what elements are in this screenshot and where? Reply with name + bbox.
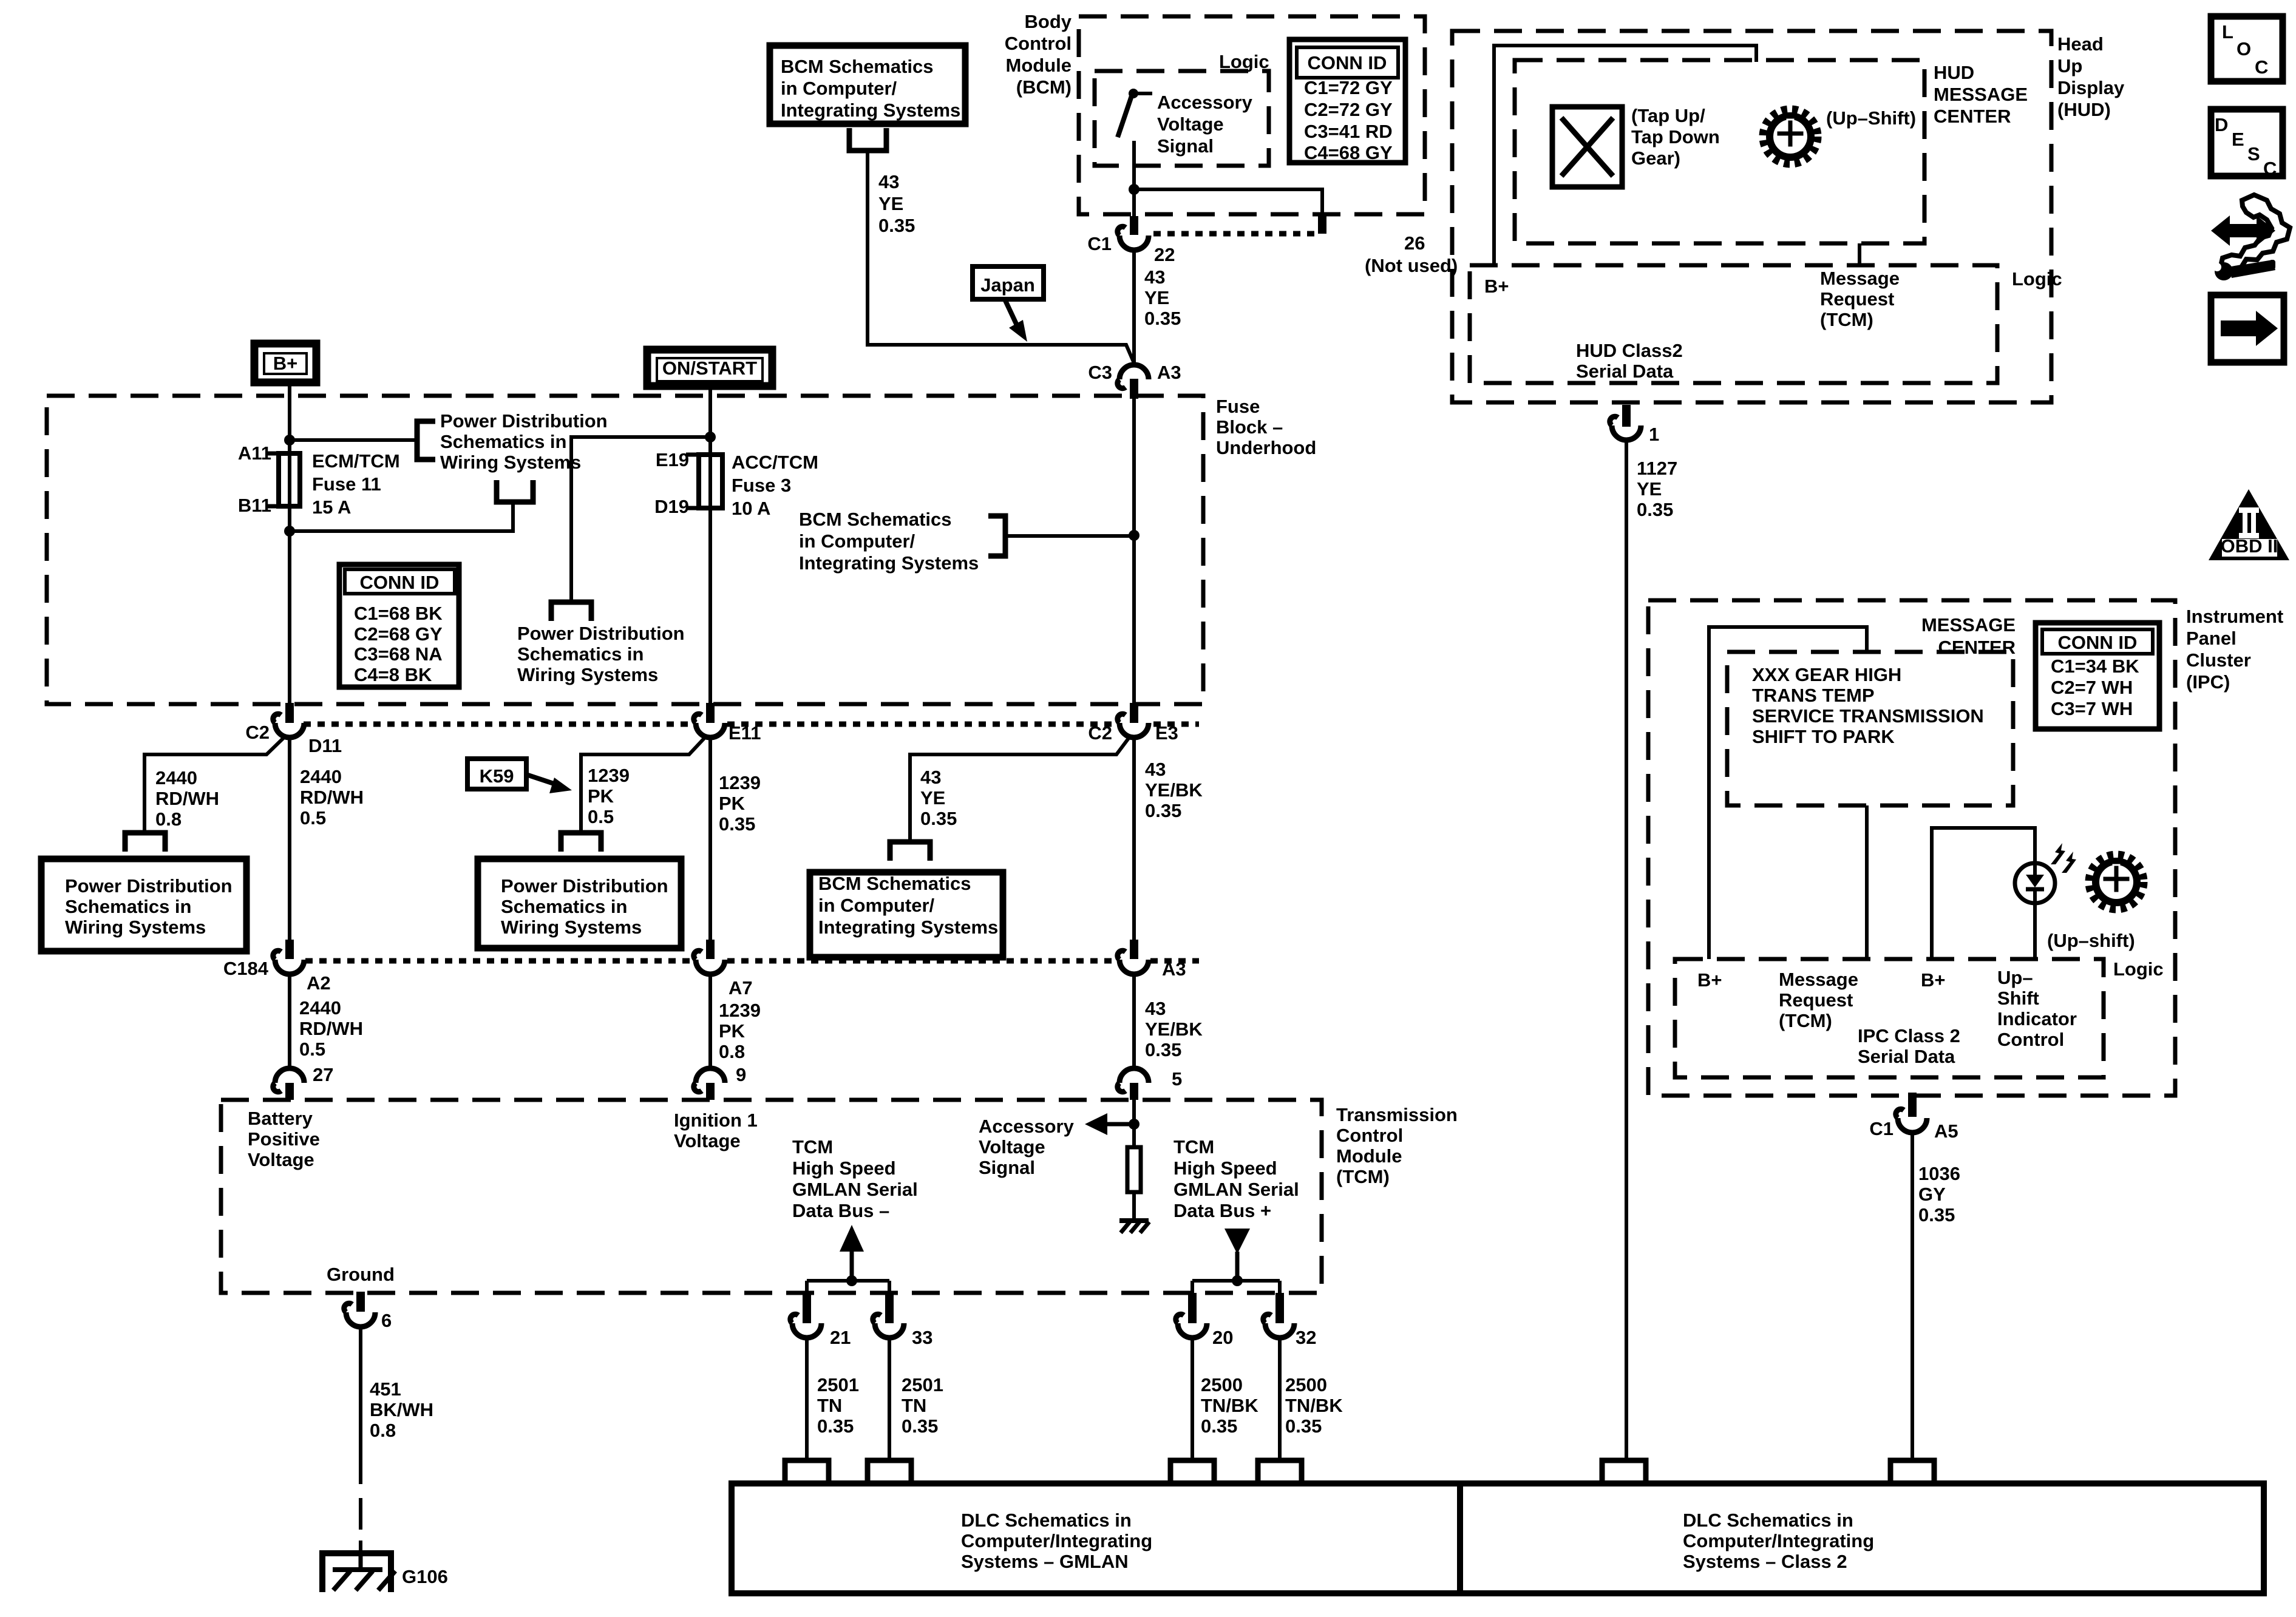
svg-text:E3: E3 (1155, 722, 1178, 744)
pin bar (356, 1292, 365, 1312)
connector HUD connector pin 1 (1610, 416, 1641, 440)
svg-text:OBD II: OBD II (2221, 535, 2278, 557)
svg-text:1239: 1239 (719, 772, 761, 793)
wire branch to BCM Schematics middle box (910, 735, 1131, 842)
svg-text:SHIFT TO PARK: SHIFT TO PARK (1752, 726, 1895, 747)
svg-text:SERVICE TRANSMISSION: SERVICE TRANSMISSION (1752, 705, 1984, 727)
wire up-shift indicator feed (1932, 828, 2035, 959)
wire resistor to ground (1132, 1192, 1136, 1219)
bracket to BCM Schematics ref (988, 516, 1005, 556)
svg-text:20: 20 (1212, 1327, 1233, 1348)
svg-text:ACC/TCM: ACC/TCM (732, 452, 818, 473)
svg-text:1036: 1036 (1918, 1163, 1960, 1184)
svg-text:C: C (2263, 158, 2277, 179)
svg-text:Head: Head (2057, 33, 2104, 55)
connector TCM pin 20 (1176, 1314, 1207, 1338)
svg-text:C3: C3 (1088, 362, 1112, 383)
wire message request HUD (1858, 243, 1861, 265)
svg-text:Wiring Systems: Wiring Systems (440, 452, 581, 473)
svg-text:Schematics in: Schematics in (501, 896, 627, 917)
svg-text:(HUD): (HUD) (2057, 99, 2111, 120)
svg-text:CONN ID: CONN ID (360, 572, 440, 593)
IPC logic box (1675, 959, 2104, 1077)
svg-text:Battery: Battery (248, 1108, 313, 1129)
wire GMLAN bus minus (807, 1279, 889, 1283)
svg-text:Systems – GMLAN: Systems – GMLAN (961, 1551, 1129, 1572)
svg-text:2500: 2500 (1201, 1374, 1243, 1395)
svg-text:Instrument: Instrument (2186, 606, 2283, 627)
connector A3 connector row2 (1118, 951, 1149, 974)
svg-text:Systems – Class 2: Systems – Class 2 (1683, 1551, 1847, 1572)
svg-text:High Speed: High Speed (1173, 1158, 1277, 1179)
CONN ID table (BCM) (1289, 39, 1405, 163)
svg-text:C2=72 GY: C2=72 GY (1304, 99, 1393, 120)
wire bus to pin 20 (1190, 1281, 1194, 1294)
box: BCM Schematics top (770, 46, 965, 124)
svg-text:0.35: 0.35 (1285, 1415, 1322, 1437)
junction bus minus (846, 1275, 857, 1286)
wire pin 5 into TCM (1132, 1100, 1136, 1147)
svg-text:Message: Message (1820, 268, 1900, 289)
svg-text:PK: PK (719, 1020, 746, 1042)
svg-text:2440: 2440 (300, 766, 342, 787)
fuse ACC/TCM Fuse 3 (699, 455, 722, 508)
svg-text:(IPC): (IPC) (2186, 671, 2230, 693)
svg-text:43: 43 (1145, 998, 1166, 1019)
wire to C1 (1132, 189, 1136, 216)
bracket DLC pin 20 (1170, 1460, 1214, 1483)
connector fuse block connector C3 pin A3 (1118, 365, 1149, 388)
svg-text:CENTER: CENTER (1938, 637, 2016, 658)
wire branch to BCM Schematics ref (1005, 534, 1134, 538)
junction E19 branch (705, 432, 716, 442)
svg-text:Panel: Panel (2186, 628, 2237, 649)
svg-text:Integrating Systems: Integrating Systems (818, 917, 998, 938)
svg-text:GMLAN Serial: GMLAN Serial (792, 1179, 918, 1200)
wire IPC Class 2 serial data to DLC (1911, 1134, 1914, 1458)
junction bus plus (1232, 1275, 1243, 1286)
pin bar (803, 1293, 811, 1323)
connector row C2/E11/C2-E3 dotted line (304, 722, 692, 727)
fuse ECM/TCM Fuse 11 (279, 453, 300, 506)
svg-text:0.35: 0.35 (902, 1415, 938, 1437)
bracket DLC pin 32 (1258, 1460, 1302, 1483)
wire A3 to E3 (1132, 399, 1136, 703)
CONN ID table (IPC) (2036, 623, 2159, 729)
connector A7 connector (694, 951, 725, 974)
svg-text:MESSAGE: MESSAGE (1921, 614, 2016, 636)
icon LOC (2211, 16, 2283, 81)
wire B+ feed to C2 (288, 386, 291, 703)
svg-text:E11: E11 (729, 722, 761, 744)
wire E11 to A7 (708, 737, 712, 940)
wire C1 to C3 (1132, 251, 1136, 364)
svg-text:26: 26 (1404, 232, 1425, 254)
svg-text:Underhood: Underhood (1216, 437, 1316, 458)
svg-text:BCM Schematics: BCM Schematics (799, 509, 952, 530)
connector TCM pin 9 (694, 1068, 725, 1092)
svg-text:in Computer/: in Computer/ (781, 78, 897, 99)
svg-text:Request: Request (1820, 288, 1894, 310)
svg-text:Japan: Japan (980, 274, 1035, 296)
svg-text:XXX GEAR HIGH: XXX GEAR HIGH (1752, 664, 1901, 685)
svg-text:K59: K59 (480, 765, 514, 787)
bracket to BCM Schematics middle box (890, 842, 930, 861)
svg-text:Integrating Systems: Integrating Systems (799, 552, 979, 574)
svg-text:(TCM): (TCM) (1820, 309, 1873, 330)
pin bar (1275, 1293, 1284, 1323)
svg-text:0.35: 0.35 (920, 808, 957, 829)
wire A7 to TCM pin 9 (708, 974, 712, 1068)
CONN ID table (fuse block) (339, 564, 459, 687)
pin bar (706, 1083, 715, 1100)
module box: Fuse Block Underhood (47, 396, 1203, 704)
icon forward arrow (2211, 295, 2284, 362)
wire ON/START feed to E11 (708, 390, 712, 703)
svg-text:RD/WH: RD/WH (299, 1018, 363, 1039)
svg-text:TCM: TCM (1173, 1136, 1214, 1158)
chassis ground (TCM internal) (1119, 1221, 1149, 1233)
connector C2 pin D11 (273, 714, 304, 737)
svg-text:YE/BK: YE/BK (1145, 779, 1203, 801)
svg-text:MESSAGE: MESSAGE (1934, 84, 2028, 105)
svg-text:HUD: HUD (1934, 62, 1974, 83)
svg-text:G106: G106 (402, 1566, 448, 1587)
power symbol ON/START (647, 350, 772, 386)
svg-text:Voltage: Voltage (248, 1149, 314, 1170)
callout K59 (467, 759, 572, 793)
svg-text:Positive: Positive (248, 1128, 320, 1150)
svg-text:Wiring Systems: Wiring Systems (65, 917, 206, 938)
svg-text:PK: PK (719, 793, 746, 814)
svg-text:Up–: Up– (1997, 967, 2033, 988)
svg-text:Transmission: Transmission (1336, 1104, 1458, 1125)
svg-text:A3: A3 (1162, 958, 1186, 980)
svg-text:43: 43 (1144, 266, 1165, 288)
svg-text:Tap Down: Tap Down (1631, 126, 1720, 147)
svg-text:Power Distribution: Power Distribution (501, 875, 668, 897)
svg-text:0.35: 0.35 (1144, 308, 1181, 329)
svg-text:CONN ID: CONN ID (1308, 52, 1387, 73)
svg-text:PK: PK (588, 785, 614, 807)
pin bar 26 (not used) (1318, 214, 1326, 234)
icon shift/wrench (2211, 195, 2290, 280)
svg-text:Request: Request (1779, 989, 1853, 1011)
wire message request IPC (1865, 805, 1869, 959)
svg-text:A11: A11 (238, 442, 271, 464)
svg-text:Logic: Logic (2012, 268, 2062, 290)
pin bar (285, 703, 294, 723)
svg-text:Power Distribution: Power Distribution (517, 623, 685, 644)
wire LED to logic (2033, 903, 2037, 959)
svg-text:ECM/TCM: ECM/TCM (312, 450, 400, 472)
svg-text:C1=68 BK: C1=68 BK (354, 603, 443, 624)
svg-text:Voltage: Voltage (979, 1136, 1045, 1158)
svg-text:D19: D19 (654, 496, 689, 517)
box: DLC Schematics GMLAN (732, 1483, 1460, 1593)
svg-text:0.8: 0.8 (719, 1041, 745, 1062)
svg-text:(TCM): (TCM) (1779, 1010, 1832, 1031)
svg-text:0.5: 0.5 (299, 1039, 325, 1060)
connector BCM connector C1 pin 22 (1118, 226, 1149, 250)
svg-text:32: 32 (1296, 1327, 1316, 1348)
svg-text:Computer/Integrating: Computer/Integrating (1683, 1530, 1874, 1551)
wire pin 20 to DLC (1190, 1339, 1194, 1458)
svg-text:Control: Control (1005, 33, 1072, 54)
svg-text:0.35: 0.35 (1918, 1204, 1955, 1225)
svg-text:GY: GY (1918, 1184, 1946, 1205)
svg-text:B+: B+ (273, 353, 298, 374)
svg-text:C1: C1 (1087, 233, 1112, 254)
svg-text:TN: TN (902, 1395, 926, 1416)
svg-text:O: O (2237, 38, 2251, 59)
svg-text:Fuse 3: Fuse 3 (732, 475, 791, 496)
svg-text:(TCM): (TCM) (1336, 1166, 1390, 1187)
svg-text:D11: D11 (308, 735, 342, 756)
arrow GMLAN Data Bus plus (1224, 1229, 1250, 1281)
wire branch to pin 26 (1134, 189, 1322, 215)
svg-text:ON/START: ON/START (662, 358, 757, 379)
svg-text:C3=41 RD: C3=41 RD (1304, 121, 1393, 142)
svg-text:D: D (2215, 114, 2228, 135)
indicator gear (IPC up-shift) (2090, 855, 2143, 909)
svg-text:YE: YE (1144, 287, 1169, 308)
svg-text:0.35: 0.35 (1201, 1415, 1237, 1437)
connector TCM pin 21 (790, 1314, 821, 1338)
pin bar (1130, 379, 1138, 399)
wire pin 32 to DLC (1278, 1339, 1282, 1458)
svg-text:Accessory: Accessory (1157, 92, 1253, 113)
svg-text:0.35: 0.35 (719, 813, 755, 835)
connector IPC connector C1 pin A5 (1896, 1109, 1927, 1133)
svg-text:HUD Class2: HUD Class2 (1576, 340, 1683, 361)
connector TCM pin 32 (1263, 1314, 1294, 1338)
svg-text:C4=68 GY: C4=68 GY (1304, 142, 1393, 163)
svg-text:0.35: 0.35 (1145, 800, 1181, 821)
svg-text:1239: 1239 (719, 1000, 761, 1021)
svg-text:33: 33 (912, 1327, 932, 1348)
wire bus to pin 32 (1278, 1281, 1282, 1294)
callout Japan (973, 266, 1044, 342)
svg-text:in Computer/: in Computer/ (818, 895, 935, 916)
connector TCM pin 27 (273, 1068, 304, 1092)
module box: Body Control Module (BCM) (1079, 16, 1425, 214)
svg-text:43: 43 (1145, 759, 1166, 780)
svg-text:C3=7 WH: C3=7 WH (2051, 698, 2133, 719)
svg-text:TCM: TCM (792, 1136, 833, 1158)
pin bar (1188, 1293, 1197, 1323)
svg-text:2440: 2440 (299, 997, 341, 1019)
svg-text:0.35: 0.35 (1637, 499, 1673, 520)
svg-text:A3: A3 (1157, 362, 1181, 383)
svg-text:Computer/Integrating: Computer/Integrating (961, 1530, 1152, 1551)
wire HUD Class2 serial data to DLC (1625, 441, 1628, 1458)
IPC message center display box (1727, 652, 2013, 805)
svg-text:(Not used): (Not used) (1365, 255, 1458, 276)
pin bar (1130, 940, 1138, 959)
svg-text:Shift: Shift (1997, 988, 2039, 1009)
resistor (TCM internal) (1127, 1147, 1141, 1192)
svg-text:Gear): Gear) (1631, 147, 1680, 169)
svg-text:TN/BK: TN/BK (1201, 1395, 1258, 1416)
svg-text:Data Bus +: Data Bus + (1173, 1200, 1271, 1221)
svg-text:2440: 2440 (155, 767, 197, 788)
svg-text:BK/WH: BK/WH (370, 1399, 433, 1420)
box: BCM Schematics middle (810, 872, 1003, 957)
svg-text:L: L (2222, 21, 2233, 42)
junction A11 branch (284, 435, 295, 446)
wire branch B11 to ref bracket (290, 502, 513, 531)
svg-text:GMLAN Serial: GMLAN Serial (1173, 1179, 1299, 1200)
wire HUD B+ feed (1494, 46, 1756, 265)
connector TCM pin 5 (1118, 1068, 1149, 1092)
svg-text:Schematics in: Schematics in (440, 431, 566, 452)
svg-text:B+: B+ (1697, 969, 1722, 991)
bracket to Wiring Systems text (497, 480, 533, 502)
svg-text:E19: E19 (656, 449, 689, 470)
svg-text:1127: 1127 (1637, 458, 1677, 479)
connector TCM pin 6 (344, 1303, 375, 1327)
svg-text:Wiring Systems: Wiring Systems (501, 917, 642, 938)
svg-text:CONN ID: CONN ID (2058, 632, 2138, 653)
svg-text:Display: Display (2057, 77, 2125, 98)
wire IPC B+ feed (1709, 627, 1867, 959)
svg-text:21: 21 (830, 1327, 851, 1348)
svg-text:Logic: Logic (1219, 51, 1269, 72)
svg-text:0.8: 0.8 (155, 808, 182, 830)
svg-text:(Up–Shift): (Up–Shift) (1826, 107, 1916, 129)
BCM C1 connector dotted line to pin 26 (1153, 231, 1314, 237)
svg-text:BCM Schematics: BCM Schematics (781, 56, 934, 77)
svg-text:Ignition 1: Ignition 1 (674, 1110, 758, 1131)
bracket DLC HUD serial (1602, 1460, 1646, 1483)
bracket DLC pin 21 (785, 1460, 829, 1483)
wire ground lower (359, 1541, 362, 1552)
svg-text:B+: B+ (1921, 969, 1946, 991)
svg-text:Control: Control (1336, 1125, 1403, 1146)
pin bar (1622, 405, 1631, 427)
svg-text:C1=34 BK: C1=34 BK (2051, 656, 2139, 677)
wire 43 YE from BCM Schematics to fuse block (868, 151, 1134, 363)
wire branch to Power Distribution ref 2 (571, 437, 710, 602)
svg-text:0.35: 0.35 (878, 215, 915, 236)
svg-text:A2: A2 (307, 972, 331, 994)
wire ground upper (359, 1328, 362, 1484)
svg-text:YE: YE (1637, 478, 1662, 500)
svg-text:43: 43 (878, 171, 899, 192)
svg-text:Module: Module (1336, 1145, 1402, 1167)
svg-text:Cluster: Cluster (2186, 649, 2251, 671)
svg-text:Schematics in: Schematics in (65, 896, 191, 917)
svg-text:High Speed: High Speed (792, 1158, 896, 1179)
svg-text:C4=8 BK: C4=8 BK (354, 664, 432, 685)
svg-text:S: S (2247, 143, 2260, 164)
HUD logic box (1470, 265, 1997, 383)
svg-text:1: 1 (1649, 424, 1659, 445)
svg-text:Serial Data: Serial Data (1576, 361, 1674, 382)
BCM inner logic box (1095, 71, 1269, 166)
junction BCM schematics branch (1129, 530, 1140, 541)
svg-text:Block –: Block – (1216, 416, 1283, 438)
svg-text:Wiring Systems: Wiring Systems (517, 664, 658, 685)
svg-text:2500: 2500 (1285, 1374, 1327, 1395)
pin bar (1130, 703, 1138, 723)
svg-text:Voltage: Voltage (674, 1130, 741, 1151)
svg-text:Control: Control (1997, 1029, 2064, 1050)
svg-text:(Up–shift): (Up–shift) (2047, 930, 2135, 951)
svg-text:C2: C2 (245, 722, 270, 743)
wire A2 to TCM pin 27 (288, 974, 291, 1068)
box: Power Distribution left (41, 859, 246, 951)
svg-text:Data Bus –: Data Bus – (792, 1200, 889, 1221)
svg-text:E: E (2232, 129, 2244, 150)
pin bar (1130, 216, 1138, 235)
svg-text:Logic: Logic (2113, 958, 2164, 980)
svg-text:0.8: 0.8 (370, 1420, 396, 1441)
svg-text:CENTER: CENTER (1934, 106, 2011, 127)
svg-text:in Computer/: in Computer/ (799, 531, 915, 552)
svg-text:RD/WH: RD/WH (155, 788, 219, 809)
wire to TCM pin 5 (1132, 974, 1136, 1068)
arrow Accessory Voltage Signal (1106, 1122, 1134, 1127)
svg-text:27: 27 (313, 1064, 333, 1085)
bracket to Power Distribution text (417, 421, 435, 459)
display symbol tap up/down (X box) (1552, 107, 1622, 187)
svg-text:(Tap Up/: (Tap Up/ (1631, 105, 1705, 126)
svg-text:BCM Schematics: BCM Schematics (818, 873, 971, 894)
wire branch to Power Distribution ref (290, 438, 417, 442)
wire bus to pin 21 (805, 1281, 809, 1294)
svg-text:DLC Schematics in: DLC Schematics in (961, 1510, 1132, 1531)
svg-text:43: 43 (920, 767, 941, 788)
pin bar (885, 1293, 894, 1323)
svg-text:C184: C184 (223, 958, 269, 979)
svg-text:Signal: Signal (1157, 135, 1214, 157)
power symbol B+ (254, 344, 316, 382)
svg-text:Signal: Signal (979, 1157, 1035, 1178)
bracket under BCM Schematics top box (849, 128, 886, 151)
svg-text:15 A: 15 A (312, 497, 351, 518)
wire D11 to C184 (288, 737, 291, 940)
connector C2/E3 connector (1118, 714, 1149, 737)
switch Accessory Voltage Signal (1118, 89, 1152, 137)
svg-text:Power Distribution: Power Distribution (65, 875, 233, 897)
svg-text:C1: C1 (1869, 1118, 1894, 1139)
wire ground dashed segment (359, 1498, 362, 1530)
svg-text:B+: B+ (1484, 276, 1509, 297)
svg-text:6: 6 (381, 1310, 392, 1331)
svg-text:Schematics in: Schematics in (517, 643, 644, 665)
svg-text:Up: Up (2057, 55, 2082, 76)
junction accessory voltage (1129, 1119, 1140, 1130)
svg-text:Voltage: Voltage (1157, 114, 1224, 135)
svg-text:Accessory: Accessory (979, 1116, 1075, 1137)
junction pin 26 branch (1129, 184, 1140, 195)
svg-text:Fuse: Fuse (1216, 396, 1260, 417)
bracket to Power Distribution left box (125, 833, 165, 852)
svg-text:Power Distribution: Power Distribution (440, 410, 608, 432)
connector TCM pin 33 (873, 1314, 904, 1338)
bracket DLC IPC serial (1890, 1460, 1934, 1483)
svg-text:RD/WH: RD/WH (300, 787, 364, 808)
svg-text:Body: Body (1025, 11, 1072, 32)
wire GMLAN bus plus (1192, 1279, 1280, 1283)
svg-text:TN: TN (817, 1395, 842, 1416)
svg-text:Integrating Systems: Integrating Systems (781, 100, 960, 121)
svg-text:Serial Data: Serial Data (1858, 1046, 1955, 1067)
module box: Head Up Display (HUD) (1452, 31, 2051, 402)
LED up-shift indicator (2015, 843, 2076, 903)
